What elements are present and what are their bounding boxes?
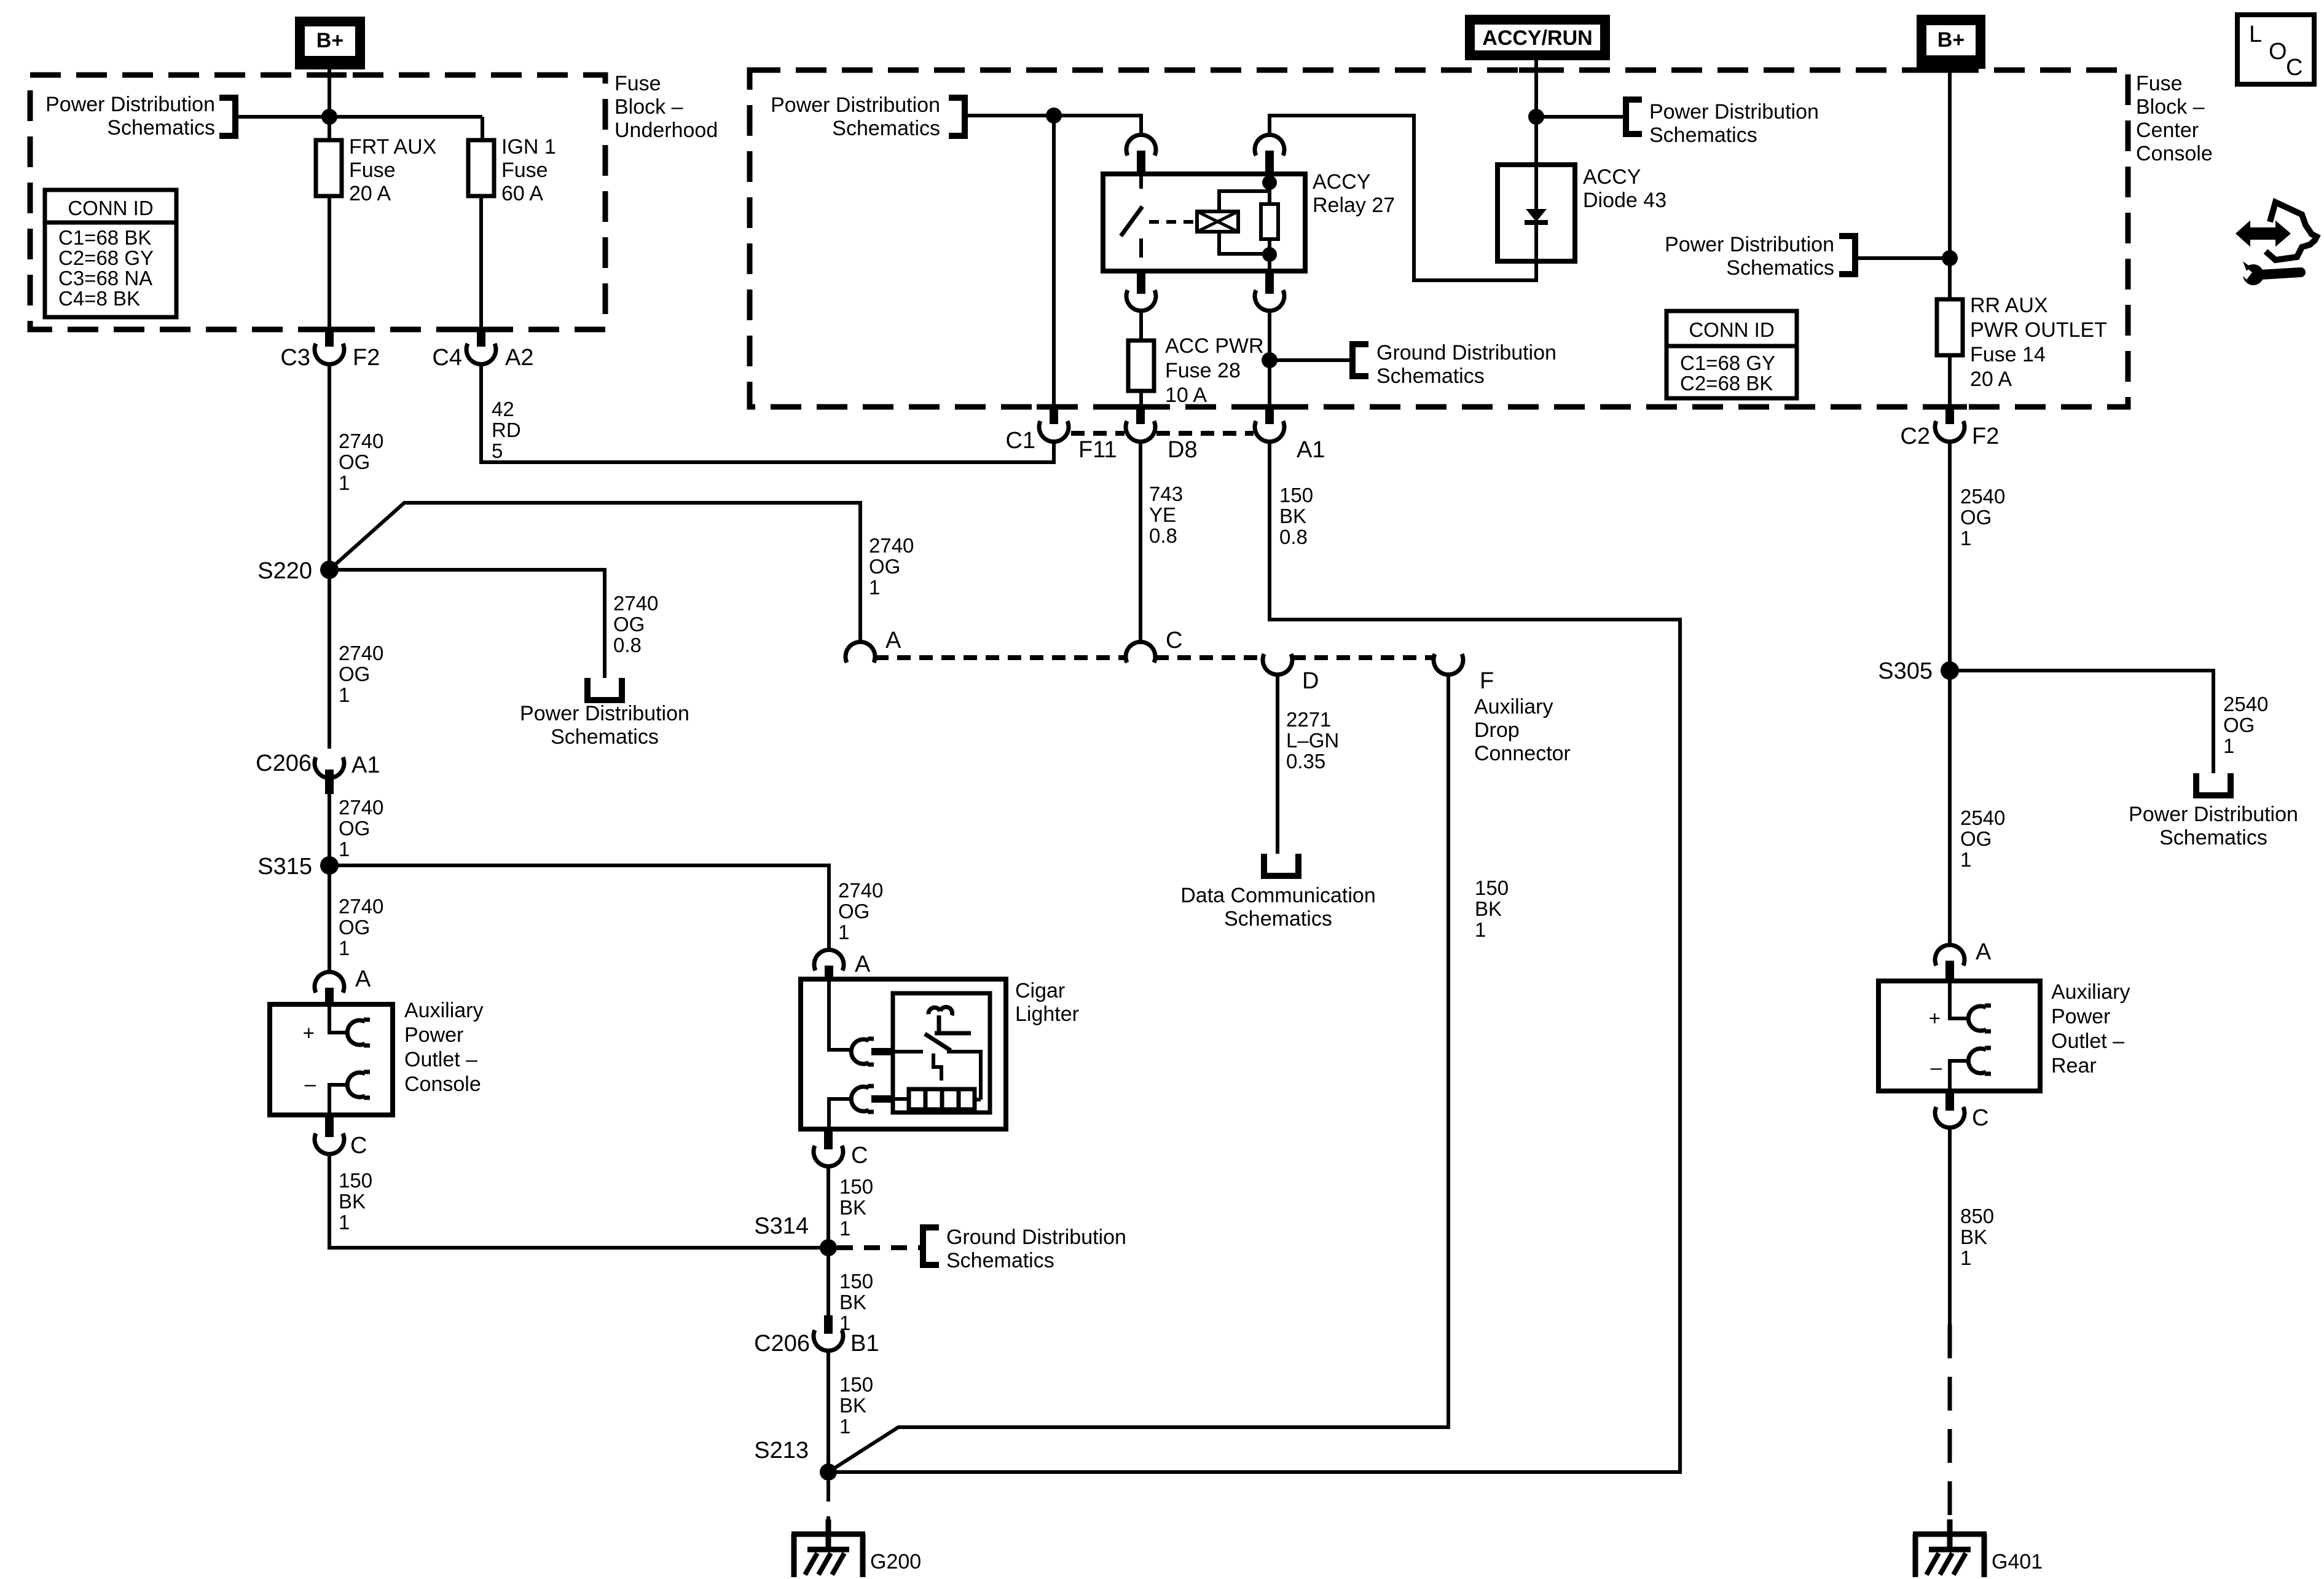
power symbol B+ (left) [295,17,365,69]
svg-text:Ground Distribution: Ground Distribution [946,1226,1126,1249]
svg-text:RD: RD [492,419,521,441]
wire diode to relay coil [1270,116,1536,280]
svg-text:C2=68 GY: C2=68 GY [58,246,154,269]
svg-text:ACCY: ACCY [1583,165,1641,189]
svg-text:Drop: Drop [1474,719,1520,742]
ground G401 [1913,1532,1987,1537]
svg-text:Schematics: Schematics [946,1249,1054,1272]
svg-text:C206: C206 [754,1331,810,1357]
svg-text:150: 150 [839,1373,873,1396]
svg-text:743: 743 [1149,482,1183,505]
service icon (panel outline) [2266,202,2317,260]
wire S220 to drop connector pin A [329,503,860,644]
svg-text:Data Communication: Data Communication [1180,884,1375,907]
svg-text:OG: OG [339,916,370,939]
svg-text:D: D [1302,668,1319,694]
svg-text:OG: OG [1960,827,1992,850]
svg-text:60 A: 60 A [501,182,543,205]
svg-text:L: L [2249,22,2262,47]
svg-text:Connector: Connector [1474,742,1571,765]
junction [321,109,337,125]
svg-text:20 A: 20 A [1970,368,2012,391]
wire 2271 L-GN 0.35 pin D to data comm [1276,672,1279,854]
connector A (cigar lighter) [814,950,844,971]
svg-text:1: 1 [838,921,849,943]
svg-text:1: 1 [839,1217,850,1240]
svg-text:2740: 2740 [838,879,883,902]
relay pin (bottom right) [1265,271,1274,294]
ground distribution ref (relay coil) [1270,358,1352,362]
svg-text:Auxiliary: Auxiliary [1474,695,1553,719]
wire bracket to fuses [235,117,482,140]
svg-text:OG: OG [339,451,370,473]
svg-text:BK: BK [339,1190,366,1213]
svg-text:1: 1 [339,683,350,706]
svg-text:YE: YE [1149,503,1176,526]
wire S315 to cigar lighter [329,865,829,952]
off-page ref Power Distribution Schematics (ACCY feed) [1536,115,1626,119]
wire bracket to relay switch pin [965,116,1141,137]
svg-text:A: A [1976,939,1992,965]
svg-text:F11: F11 [1078,437,1117,463]
power symbol ACCY/RUN [1465,15,1610,60]
connector C206 / B1 [824,1315,833,1334]
svg-text:Power Distribution: Power Distribution [771,93,940,117]
wire B+ to RR AUX fuse [1948,69,1952,299]
svg-text:CONN ID: CONN ID [68,197,153,219]
svg-text:OG: OG [339,663,370,685]
off-page ref Power Distribution Schematics (S305) [2196,773,2231,795]
svg-text:FRT AUX: FRT AUX [349,135,436,159]
svg-text:2740: 2740 [869,534,914,557]
svg-text:Fuse: Fuse [501,159,548,182]
svg-text:B1: B1 [850,1331,879,1357]
svg-text:C4=8 BK: C4=8 BK [58,287,140,310]
auxiliary power outlet - console [270,1004,393,1115]
svg-text:C3=68 NA: C3=68 NA [58,267,152,289]
fuse block - underhood (dashed outline) [30,75,605,329]
splice S220 [320,561,339,579]
diode ACCY Diode 43 [1498,165,1575,261]
wire dash-edge patches at stub crossings [312,70,1967,407]
splice S213 [820,1463,837,1481]
wire 42 RD 5 to C1 [481,362,1054,462]
svg-text:2740: 2740 [339,895,383,918]
svg-text:42: 42 [492,398,514,420]
svg-text:A: A [355,966,371,992]
junction [1262,352,1278,368]
wire to ground G200 (dashed) [826,1481,830,1532]
ground distribution ref at S314 [837,1245,921,1250]
connector A (console outlet) [315,972,344,993]
connector C (rear outlet) [1945,1091,1954,1111]
svg-text:Diode 43: Diode 43 [1583,189,1666,212]
svg-text:Fuse: Fuse [614,72,661,95]
fuse IGN 1 60 A [468,140,494,196]
power symbol B+ (right) [1917,15,1985,69]
auxiliary drop connector row A C D F (dashed) [875,655,1434,660]
svg-text:BK: BK [839,1291,866,1313]
svg-text:CONN ID: CONN ID [1689,318,1774,341]
svg-text:A: A [855,951,871,977]
svg-text:Power: Power [404,1023,463,1047]
relay pin (top right) [1255,135,1284,156]
wire S305 to power distribution ref [1950,671,2213,773]
svg-text:Schematics: Schematics [551,725,659,749]
svg-text:Auxiliary: Auxiliary [2051,980,2130,1004]
svg-text:1: 1 [1960,1246,1971,1269]
wire 2740 OG 1 S220 to C206 [328,570,331,749]
wire S213 to relay pin A1 branch [828,439,1680,1472]
svg-text:Fuse 14: Fuse 14 [1970,343,2046,366]
svg-text:C2: C2 [1900,423,1930,449]
svg-text:0.8: 0.8 [613,634,642,656]
svg-text:Fuse: Fuse [349,159,396,182]
fuse block - center console (dashed outline) [750,70,2128,407]
svg-text:OG: OG [1960,506,1992,529]
svg-text:Underhood: Underhood [614,119,718,142]
svg-text:G200: G200 [870,1550,921,1573]
svg-text:150: 150 [1279,484,1313,506]
svg-text:C: C [1972,1105,1988,1131]
wire ACCY/RUN to diode [1534,60,1538,165]
svg-text:1: 1 [1960,527,1971,549]
svg-text:20 A: 20 A [349,182,391,205]
svg-text:150: 150 [1475,876,1509,899]
connector C1 / F11 [1050,407,1058,424]
splice S305 [1941,661,1959,680]
svg-text:ACCY: ACCY [1313,170,1370,194]
wire 2740 OG 1 C206 to S315 [328,794,331,865]
svg-text:Schematics: Schematics [1649,124,1757,147]
relay ACCY Relay 27 [1103,174,1305,271]
svg-text:1: 1 [1475,918,1486,941]
svg-text:A1: A1 [351,752,380,778]
svg-text:PWR OUTLET: PWR OUTLET [1970,318,2107,342]
svg-text:Block –: Block – [614,95,683,119]
svg-text:F2: F2 [1972,423,1999,449]
svg-text:Outlet –: Outlet – [404,1048,477,1071]
drop connector pin A [846,642,875,663]
svg-text:BK: BK [839,1196,866,1219]
svg-text:BK: BK [839,1394,866,1417]
fuse ACC PWR Fuse 28 10 A [1128,341,1154,391]
svg-text:+: + [1929,1007,1941,1030]
svg-text:150: 150 [839,1270,873,1293]
relay pin (bottom left) [1137,271,1145,294]
connector D8 [1136,407,1145,424]
svg-text:L–GN: L–GN [1286,729,1339,752]
wire 150 BK 1 cigar to S314 [826,1164,830,1248]
svg-text:2540: 2540 [1960,806,2005,829]
svg-text:B+: B+ [1937,28,1965,52]
svg-text:2740: 2740 [613,592,658,615]
svg-text:1: 1 [869,576,880,599]
wire relay to ACC PWR fuse [1139,309,1143,341]
svg-text:A: A [885,628,901,653]
svg-text:Schematics: Schematics [1224,907,1332,931]
connector C2 / F2 [1945,407,1954,424]
svg-text:A1: A1 [1297,437,1325,463]
svg-text:C2=68 BK: C2=68 BK [1680,372,1773,395]
svg-text:C3: C3 [280,345,310,371]
svg-text:Cigar: Cigar [1015,979,1065,1002]
wire 150 BK 1 console outlet to S314 [329,1152,828,1248]
svg-text:Fuse 28: Fuse 28 [1165,359,1241,382]
svg-text:OG: OG [2223,714,2255,736]
svg-text:1: 1 [339,1211,350,1234]
svg-text:S314: S314 [754,1213,809,1239]
svg-text:F: F [1480,668,1494,694]
connector C4 / A2 [477,329,485,347]
svg-text:Center: Center [2136,119,2199,142]
svg-text:A2: A2 [505,345,533,371]
svg-text:C: C [1166,628,1182,653]
svg-text:2740: 2740 [339,430,383,452]
svg-text:Block –: Block – [2136,95,2205,119]
connector A (rear outlet) [1935,945,1965,966]
off-page ref Power Distribution Schematics (below S220) [587,678,622,700]
svg-text:Console: Console [2136,142,2213,165]
svg-text:C: C [350,1133,367,1159]
connector A1 [1265,407,1274,424]
svg-text:2740: 2740 [339,796,383,819]
CONN ID table (underhood) [45,190,176,317]
svg-text:0.8: 0.8 [1149,524,1177,547]
svg-text:150: 150 [839,1175,873,1198]
svg-text:10 A: 10 A [1165,384,1207,407]
svg-text:C1=68 BK: C1=68 BK [58,226,151,249]
svg-text:0.8: 0.8 [1279,526,1308,548]
svg-text:Console: Console [404,1073,481,1096]
wire B+ to FRT AUX fuse [328,69,331,140]
svg-text:G401: G401 [1992,1550,2043,1573]
svg-text:F2: F2 [353,345,380,371]
svg-text:Outlet –: Outlet – [2051,1030,2124,1053]
svg-text:ACCY/RUN: ACCY/RUN [1482,26,1592,50]
svg-text:C206: C206 [256,750,312,776]
svg-text:1: 1 [2223,734,2234,757]
svg-text:IGN 1: IGN 1 [501,135,556,159]
wire relay to A1 [1268,309,1271,407]
wire S220 to power distribution ref [329,570,605,678]
service icon (double arrow) [2237,223,2289,244]
svg-text:1: 1 [1960,848,1971,871]
svg-text:Power Distribution: Power Distribution [1649,100,1819,124]
wire 850 BK 1 to ground [1948,1125,1952,1325]
svg-text:Power Distribution: Power Distribution [520,702,689,725]
svg-text:D8: D8 [1168,437,1198,463]
svg-text:RR AUX: RR AUX [1970,294,2048,317]
svg-text:O: O [2269,39,2287,65]
splice S315 [320,856,339,875]
svg-text:–: – [1931,1056,1942,1079]
wire 2540 OG 1 S305 to rear outlet [1948,671,1952,947]
svg-text:BK: BK [1960,1226,1987,1248]
svg-text:S220: S220 [257,558,312,584]
LOC legend box [2237,15,2314,84]
relay pin (top left) [1126,135,1156,156]
svg-text:Schematics: Schematics [1376,364,1485,388]
svg-text:OG: OG [838,900,870,923]
connector row C1 F11 D8 A1 (dashed) [1071,431,1254,436]
drop connector pin F [1434,654,1463,675]
svg-text:Ground Distribution: Ground Distribution [1376,341,1557,364]
CONN ID table (center console) [1666,311,1797,398]
svg-text:C: C [851,1143,868,1168]
splice S314 [820,1239,837,1256]
svg-text:Relay 27: Relay 27 [1313,194,1395,217]
svg-text:C: C [2286,55,2302,81]
wire 2740 OG 1 to S220 [328,362,331,570]
svg-text:Auxiliary: Auxiliary [404,999,483,1022]
svg-text:BK: BK [1475,897,1502,920]
wire S213 to auxiliary drop connector pin F [828,672,1448,1472]
svg-text:OG: OG [613,613,645,636]
svg-text:B+: B+ [316,29,343,52]
svg-text:0.35: 0.35 [1286,750,1325,773]
svg-text:Lighter: Lighter [1015,1002,1079,1026]
svg-text:Rear: Rear [2051,1054,2097,1077]
svg-text:2740: 2740 [339,642,383,664]
drop connector pin D [1263,654,1292,675]
svg-text:2540: 2540 [2223,693,2268,715]
wire 150 BK 1 S314 to C206 [826,1248,830,1315]
fuse FRT AUX 20 A [316,140,342,196]
wire fuse to D8 [1139,391,1143,407]
cigar lighter [801,979,1006,1129]
connector C3 / F2 [325,329,334,347]
svg-text:1: 1 [339,471,350,494]
svg-text:Schematics: Schematics [1726,256,1834,280]
svg-text:Schematics: Schematics [2159,826,2267,849]
junction [1046,108,1062,124]
service icon (wrench) [2243,264,2264,285]
off-page ref Data Communication Schematics [1264,854,1298,876]
svg-text:2271: 2271 [1286,708,1331,731]
svg-text:Power Distribution: Power Distribution [2129,803,2298,826]
svg-text:150: 150 [339,1169,372,1192]
junction [1528,109,1544,125]
drop connector pin C [1126,642,1155,663]
fuse RR AUX PWR OUTLET Fuse 14 20 A [1937,299,1963,355]
wire junction to C1 [1052,116,1056,407]
svg-text:S315: S315 [257,854,312,880]
svg-text:C1: C1 [1005,428,1035,454]
svg-text:Power Distribution: Power Distribution [1665,233,1834,256]
svg-text:Schematics: Schematics [107,116,215,140]
svg-text:C1=68 GY: C1=68 GY [1680,352,1775,374]
wire 743 YE 0.8 D8 to pin C [1139,439,1142,644]
svg-text:ACC PWR: ACC PWR [1165,334,1264,358]
svg-text:OG: OG [869,555,900,578]
wire 150 BK 1 C206 to S213 [826,1349,830,1472]
svg-text:BK: BK [1279,505,1306,527]
auxiliary power outlet - rear [1878,981,2040,1091]
svg-text:+: + [303,1022,315,1044]
wire fuse to C2 [1948,355,1952,407]
connector C (cigar lighter) [824,1129,833,1149]
svg-text:C4: C4 [432,345,462,371]
wire FRT AUX fuse to C3 [328,196,331,332]
connector C206 / A1 [315,757,344,778]
svg-text:1: 1 [339,838,350,860]
svg-text:5: 5 [492,439,503,462]
wire 2540 OG 1 C2 to S305 [1948,439,1952,671]
svg-text:1: 1 [839,1415,850,1438]
svg-text:Power Distribution: Power Distribution [45,93,215,116]
ground G200 [791,1532,865,1537]
svg-text:Power: Power [2051,1005,2110,1028]
svg-text:S305: S305 [1878,658,1933,684]
svg-text:Fuse: Fuse [2136,72,2183,95]
svg-text:–: – [305,1073,316,1095]
svg-text:Schematics: Schematics [832,117,940,140]
connector C (console outlet) [325,1115,334,1137]
wire IGN 1 fuse to C4 [479,196,483,332]
svg-text:1: 1 [339,937,350,959]
svg-text:2540: 2540 [1960,485,2005,508]
svg-text:OG: OG [339,817,370,840]
svg-text:S213: S213 [754,1438,809,1463]
junction [1942,250,1958,266]
wire 2740 OG 1 S315 to console outlet [328,865,331,974]
svg-text:850: 850 [1960,1205,1994,1227]
